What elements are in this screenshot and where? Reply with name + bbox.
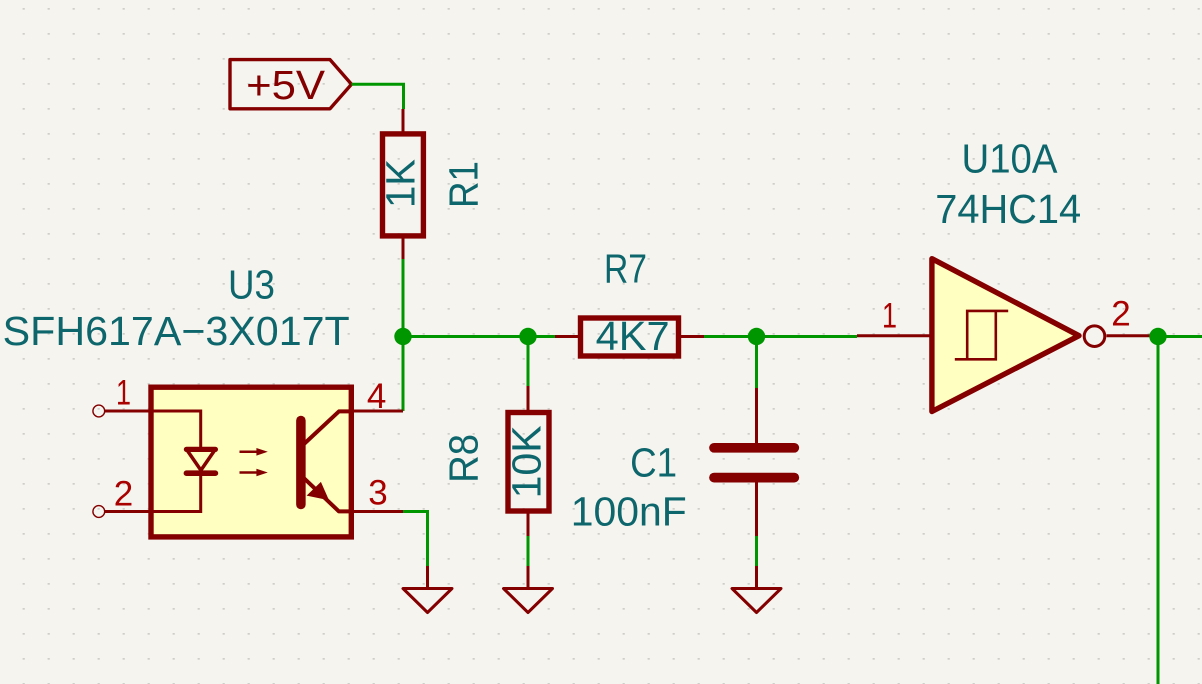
wire R1 to node A and U3 pin 4 — [402, 259, 405, 411]
svg-text:1: 1 — [116, 374, 131, 413]
resistor R1 — [383, 109, 424, 259]
svg-text:4K7: 4K7 — [596, 313, 670, 359]
wire output to right edge — [1157, 335, 1202, 338]
light arrows — [240, 451, 259, 454]
svg-text:U10A: U10A — [962, 136, 1059, 182]
junction node C (output) — [1149, 328, 1166, 345]
U10A pin 1 — [857, 334, 931, 337]
junction node B (C1 tap) — [748, 328, 765, 345]
optocoupler U3 body — [151, 387, 352, 537]
resistor R8 — [508, 386, 549, 536]
junction node A — [394, 328, 411, 345]
svg-text:3: 3 — [368, 474, 387, 513]
svg-text:2: 2 — [114, 475, 133, 514]
power symbol +5V — [230, 60, 352, 109]
U3 pin 2 — [93, 506, 149, 518]
output bubble — [1084, 326, 1105, 347]
inverter U10A — [932, 259, 1105, 412]
resistor R7 — [555, 318, 704, 356]
svg-text:+5V: +5V — [246, 62, 326, 108]
ground symbol at U3 pin 3 — [403, 566, 452, 613]
U10A pin 2 — [1107, 334, 1158, 337]
schmitt hysteresis mark — [955, 311, 1008, 359]
svg-text:4: 4 — [367, 377, 386, 416]
U3 pin 3 — [341, 510, 404, 513]
phototransistor — [296, 421, 306, 505]
led wiring — [151, 411, 201, 448]
wire +5V to R1 — [352, 84, 404, 109]
svg-text:U3: U3 — [228, 262, 275, 308]
svg-text:R1: R1 — [441, 161, 487, 208]
svg-text:C1: C1 — [630, 440, 677, 486]
wire node B to C1 — [755, 337, 758, 390]
U3 pin 1 — [93, 405, 149, 417]
svg-text:100nF: 100nF — [571, 489, 687, 535]
wire R8 to ground — [527, 536, 530, 566]
wire R7 to U10A pin 1 — [704, 335, 857, 338]
wire output down to bottom edge — [1157, 337, 1160, 684]
svg-text:R7: R7 — [604, 246, 647, 292]
ground symbol at C1 — [732, 566, 781, 613]
wire node A to R7 — [403, 335, 555, 338]
svg-text:SFH617A−3X017T: SFH617A−3X017T — [3, 308, 350, 354]
svg-text:74HC14: 74HC14 — [935, 186, 1081, 232]
svg-text:1K: 1K — [377, 159, 423, 208]
wire node A to R8 — [527, 337, 530, 387]
wire C1 to ground — [755, 536, 758, 566]
wire U3 pin 3 to ground — [403, 512, 428, 567]
svg-text:10K: 10K — [504, 425, 550, 498]
svg-text:2: 2 — [1111, 295, 1130, 334]
capacitor C1 — [714, 388, 794, 536]
svg-text:R8: R8 — [440, 434, 486, 483]
ground symbol at R8 — [504, 566, 553, 613]
svg-text:1: 1 — [882, 297, 897, 336]
junction node A2 (R8 tap) — [519, 328, 536, 345]
U3 pin 4 — [341, 410, 404, 413]
